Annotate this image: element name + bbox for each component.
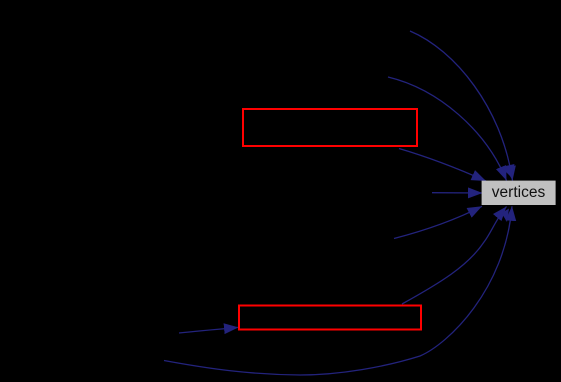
- wire edge G (long bottom swoop into vertices bottom): [164, 206, 512, 375]
- wire edge C (from truncated box 1 to vertices top-left corner): [399, 149, 486, 182]
- wire edge F (from truncated box 2 up to vertices bottom): [402, 207, 507, 305]
- junction filler between top arrowheads: [501, 164, 515, 177]
- wire edge B (second top curve into vertices top): [388, 77, 507, 181]
- svg-text:vertices: vertices: [492, 184, 546, 201]
- wire edge H (arrow into truncated box 2 left edge): [179, 327, 239, 333]
- wire edge A (top outer curve into vertices top): [410, 31, 513, 181]
- node vertices (current node, grey): [482, 181, 556, 205]
- truncated node box 2 (red): [239, 306, 421, 330]
- wire edge D (horizontal into vertices left): [432, 192, 483, 194]
- junction filler between bottom arrowheads: [502, 209, 510, 223]
- truncated node box 1 (red): [243, 109, 417, 146]
- wire edge E (into vertices bottom-left corner): [394, 206, 482, 238]
